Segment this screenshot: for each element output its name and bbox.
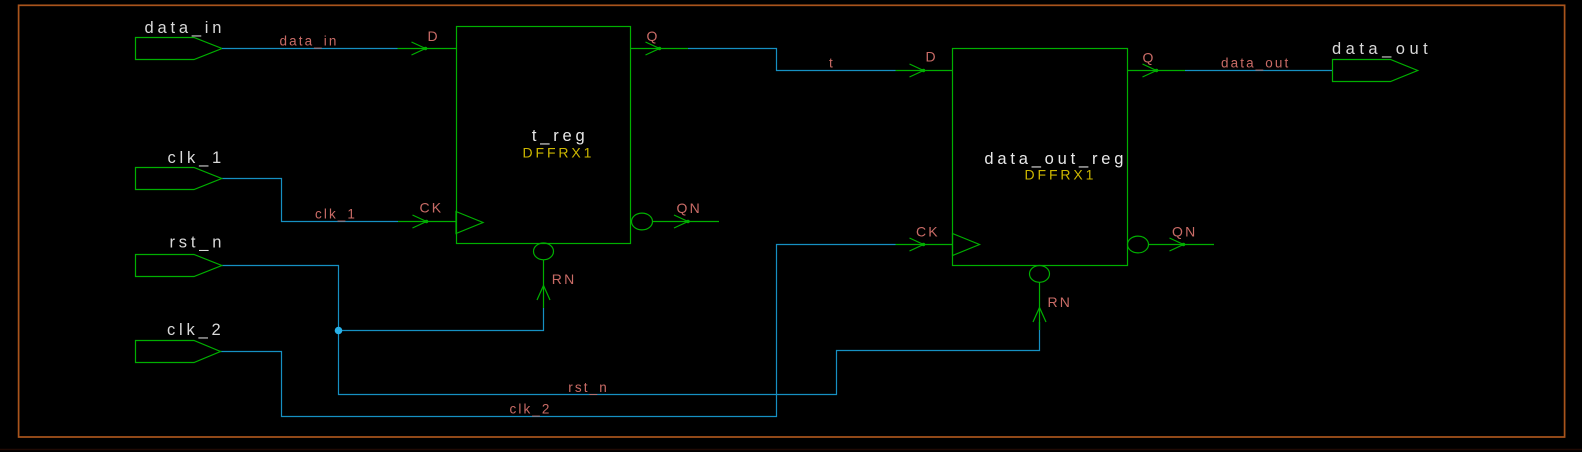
pin QN U1 with bubble [632, 213, 720, 230]
svg-text:clk_1: clk_1 [315, 207, 357, 222]
svg-text:QN: QN [677, 200, 702, 216]
flip-flop U2 data_out_reg body [953, 49, 1128, 266]
wire net clk_1 [222, 179, 398, 222]
pin Q U2 [1128, 64, 1186, 77]
svg-text:CK: CK [420, 200, 444, 216]
svg-text:t_reg: t_reg [532, 127, 589, 145]
junction rst_n [335, 327, 343, 335]
svg-text:CK: CK [916, 224, 940, 240]
pin Q U1 [631, 42, 689, 55]
wire net clk_2 [221, 245, 896, 417]
svg-text:clk_2: clk_2 [167, 321, 225, 339]
svg-text:data_in: data_in [145, 19, 226, 37]
svg-text:DFFRX1: DFFRX1 [523, 145, 595, 161]
svg-text:DFFRX1: DFFRX1 [1025, 166, 1097, 182]
svg-text:data_in: data_in [280, 34, 339, 49]
svg-text:D: D [428, 28, 440, 44]
pin RN U2 with bubble [1030, 266, 1050, 331]
output port data_out [1333, 60, 1418, 82]
input port clk_1 [136, 168, 222, 190]
pin CK U2 [896, 234, 980, 256]
pin D of U1 [398, 42, 457, 55]
pin RN U1 with bubble [534, 243, 554, 308]
input port data_in [136, 38, 223, 60]
svg-text:Q: Q [1143, 50, 1156, 66]
wire net rst_n [222, 266, 1040, 395]
svg-text:Q: Q [647, 28, 660, 44]
wire rst_n branch to U1 RN [339, 308, 544, 331]
svg-text:clk_1: clk_1 [168, 149, 226, 167]
svg-text:clk_2: clk_2 [510, 402, 552, 417]
svg-text:rst_n: rst_n [568, 380, 609, 395]
svg-text:rst_n: rst_n [170, 234, 226, 252]
svg-text:RN: RN [1048, 294, 1073, 310]
svg-text:data_out: data_out [1332, 40, 1432, 58]
input port rst_n [136, 255, 222, 277]
wire net data_out [1185, 70, 1332, 72]
input port clk_2 [136, 341, 221, 363]
svg-text:t: t [829, 56, 835, 71]
pin CK U1 [398, 212, 483, 234]
svg-text:RN: RN [552, 271, 577, 287]
svg-text:QN: QN [1172, 224, 1197, 240]
svg-text:data_out: data_out [1221, 56, 1290, 71]
wire net data_in [222, 48, 398, 50]
flip-flop U1 t_reg body [457, 27, 631, 244]
pin D of U2 [896, 64, 953, 77]
svg-text:D: D [926, 49, 938, 65]
pin QN U2 with bubble [1128, 236, 1215, 253]
wire net t [688, 49, 896, 71]
